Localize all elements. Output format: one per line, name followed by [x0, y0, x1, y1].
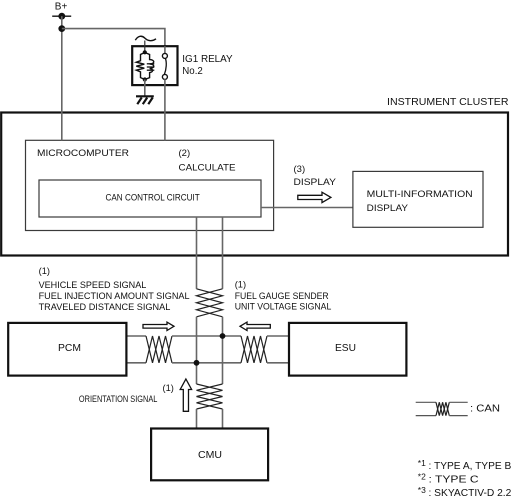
instrument cluster box: [1, 113, 508, 256]
svg-text:No.2: No.2: [182, 66, 203, 77]
ESU box: [289, 323, 406, 376]
CAN bus right rail lower segment: [222, 409, 224, 429]
svg-text:DISPLAY: DISPLAY: [294, 177, 337, 188]
ESU twisted pair symbol: [241, 336, 267, 363]
CAN bus right rail upper segment: [222, 217, 224, 289]
CAN twisted pair symbol lower: [197, 384, 223, 409]
svg-text:*2: *2: [418, 472, 426, 482]
microcomputer box: [26, 140, 274, 230]
wire from wave to relay coil: [144, 41, 146, 53]
relay coil core bars: [147, 63, 155, 65]
CAN bus left rail upper segment: [196, 217, 198, 289]
node junction lower rail: [194, 360, 200, 366]
display block arrow: [298, 192, 331, 202]
svg-text:: TYPE A, TYPE B: : TYPE A, TYPE B: [429, 461, 512, 472]
relay coil right branch: [145, 53, 154, 80]
svg-text:*1: *1: [418, 458, 426, 468]
svg-text:: CAN: : CAN: [470, 404, 500, 415]
svg-text:VEHICLE SPEED SIGNAL: VEHICLE SPEED SIGNAL: [39, 280, 147, 290]
wire PCM lower rail: [126, 362, 146, 364]
svg-text:(1): (1): [235, 280, 246, 290]
svg-text:ESU: ESU: [335, 342, 356, 354]
CAN twisted pair symbol upper: [197, 289, 223, 317]
ground: [136, 95, 154, 97]
legend CAN twisted pair symbol: [416, 401, 436, 403]
svg-text:DISPLAY: DISPLAY: [367, 203, 409, 214]
svg-text:(1): (1): [39, 266, 50, 276]
relay coil loop left branch with resistor: [136, 53, 145, 80]
wire B+ branch to relay switch: [62, 29, 165, 47]
relay switch contacts: [162, 53, 167, 58]
wire relay coil to ground: [144, 80, 146, 97]
svg-text:MICROCOMPUTER: MICROCOMPUTER: [37, 148, 129, 159]
CAN bus right rail middle segment: [222, 317, 224, 384]
svg-text:FUEL GAUGE SENDER: FUEL GAUGE SENDER: [235, 291, 329, 301]
svg-text:CMU: CMU: [198, 449, 222, 461]
wave break symbol: [135, 36, 156, 40]
svg-text:(2): (2): [179, 148, 191, 159]
svg-text:B+: B+: [55, 2, 68, 13]
svg-text:UNIT VOLTAGE SIGNAL: UNIT VOLTAGE SIGNAL: [235, 302, 332, 312]
ESU block arrow: [240, 322, 270, 330]
IG1 relay No.2 box: [132, 46, 177, 85]
svg-text:IG1 RELAY: IG1 RELAY: [182, 54, 233, 65]
svg-text:CALCULATE: CALCULATE: [179, 162, 236, 173]
CMU block arrow up: [180, 379, 191, 411]
wire ESU lower rail: [267, 362, 289, 364]
svg-text:ORIENTATION SIGNAL: ORIENTATION SIGNAL: [79, 394, 157, 404]
svg-text:TRAVELED DISTANCE SIGNAL: TRAVELED DISTANCE SIGNAL: [39, 302, 171, 312]
svg-text:PCM: PCM: [58, 342, 81, 354]
PCM block arrow: [143, 322, 174, 330]
wire B+ vertical to microcomputer: [61, 16, 63, 140]
PCM box: [8, 323, 126, 376]
svg-text:CAN CONTROL CIRCUIT: CAN CONTROL CIRCUIT: [106, 192, 200, 203]
wire CAN control circuit to multi-information display: [261, 207, 353, 209]
svg-text:MULTI-INFORMATION: MULTI-INFORMATION: [367, 189, 473, 200]
wire bus lower rail middle: [172, 362, 241, 364]
relay coil terminals: [143, 50, 147, 54]
multi-information display box: [353, 171, 483, 227]
svg-text:*3: *3: [418, 485, 426, 495]
CAN control circuit box: [39, 180, 261, 217]
wire relay switch to microcomputer: [164, 79, 166, 140]
wire bus upper rail middle: [172, 335, 241, 337]
relay switch blade: [164, 58, 166, 74]
svg-text:: SKYACTIV-D 2.2: : SKYACTIV-D 2.2: [429, 488, 512, 497]
svg-text:(3): (3): [294, 164, 306, 175]
node junction on B+ wire: [58, 25, 65, 32]
wire PCM upper rail: [126, 335, 146, 337]
wire ESU upper rail: [267, 335, 289, 337]
svg-text:: TYPE C: : TYPE C: [429, 475, 479, 486]
CMU box: [151, 429, 268, 481]
svg-text:(1): (1): [163, 383, 174, 393]
PCM twisted pair symbol: [146, 336, 172, 363]
wire relay switch inside: [164, 46, 166, 54]
svg-text:FUEL INJECTION AMOUNT SIGNAL: FUEL INJECTION AMOUNT SIGNAL: [39, 291, 190, 301]
CAN bus left rail middle segment: [196, 317, 198, 384]
svg-text:INSTRUMENT CLUSTER: INSTRUMENT CLUSTER: [387, 97, 509, 108]
CAN bus left rail lower segment: [196, 409, 198, 429]
node junction upper rail: [220, 333, 226, 339]
